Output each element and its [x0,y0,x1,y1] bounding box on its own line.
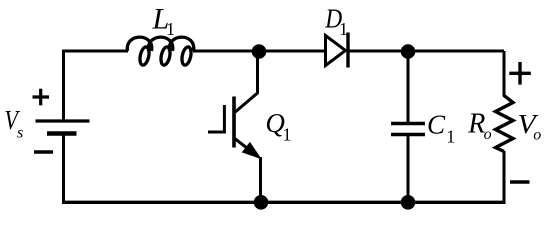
svg-text:s: s [17,125,23,142]
output plus sign [509,62,531,85]
Q1 emitter wire [259,157,262,202]
wire: right vertical above resistor [503,51,506,97]
Q1 emitter arrow [243,143,261,159]
D1 cathode bar [346,33,349,68]
svg-text:1: 1 [339,19,348,39]
C1 top lead [407,51,410,122]
C1 bottom lead [407,136,410,202]
Q1 body bar [232,97,236,148]
capacitor C1 [391,51,425,202]
battery V_s (voltage source) [33,89,90,152]
wire: top rail middle segment (inductor to diode anode) [193,50,325,53]
inductor L1 [127,37,193,66]
wire: top rail left segment (source to inductor) [64,51,129,121]
Q1 gate lead [208,131,224,134]
battery long plate [36,119,90,122]
node: top junction B (diode/capacitor) [401,44,416,59]
wire: bottom rail [62,201,506,204]
C1 bottom plate [391,133,425,136]
resistor Ro [496,96,514,152]
Q1 gate bar [223,105,226,134]
label C1 [427,109,455,146]
svg-text:1: 1 [446,127,455,147]
label Ro [467,108,491,143]
svg-text:1: 1 [166,19,175,39]
label D1 [324,4,348,39]
output minus sign [510,180,530,183]
node: bottom junction A (emitter) [254,195,269,210]
wire: right vertical below resistor [503,151,506,204]
transistor Q1 (IGBT switch) [208,51,261,202]
wire: top rail right segment (diode cathode to output corner) [348,50,504,53]
label Vs [4,105,23,142]
diode D1 [326,33,349,68]
Ro zigzag [496,96,514,152]
node: top junction A (switch/inductor) [252,44,267,59]
svg-text:o: o [484,126,492,143]
battery plus sign [33,89,50,106]
svg-text:o: o [533,127,541,144]
battery minus sign [34,150,53,153]
svg-text:1: 1 [283,124,292,144]
battery short plate [47,131,77,135]
svg-text:C: C [427,109,446,139]
node: bottom junction B (capacitor) [401,195,416,210]
label L1 [152,3,176,40]
label Vo [518,109,542,144]
wire: left vertical below battery [62,134,65,204]
Q1 collector lead [234,51,258,113]
C1 top plate [391,122,425,125]
Q1 emitter lead [234,138,258,157]
label Q1 [265,108,291,144]
D1 triangle (anode) [326,36,346,66]
